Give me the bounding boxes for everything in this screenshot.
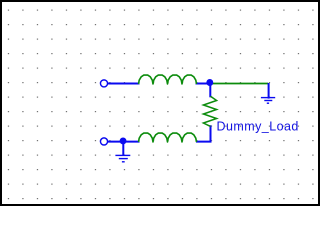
svg-text:Dummy_Load: Dummy_Load — [217, 120, 299, 134]
